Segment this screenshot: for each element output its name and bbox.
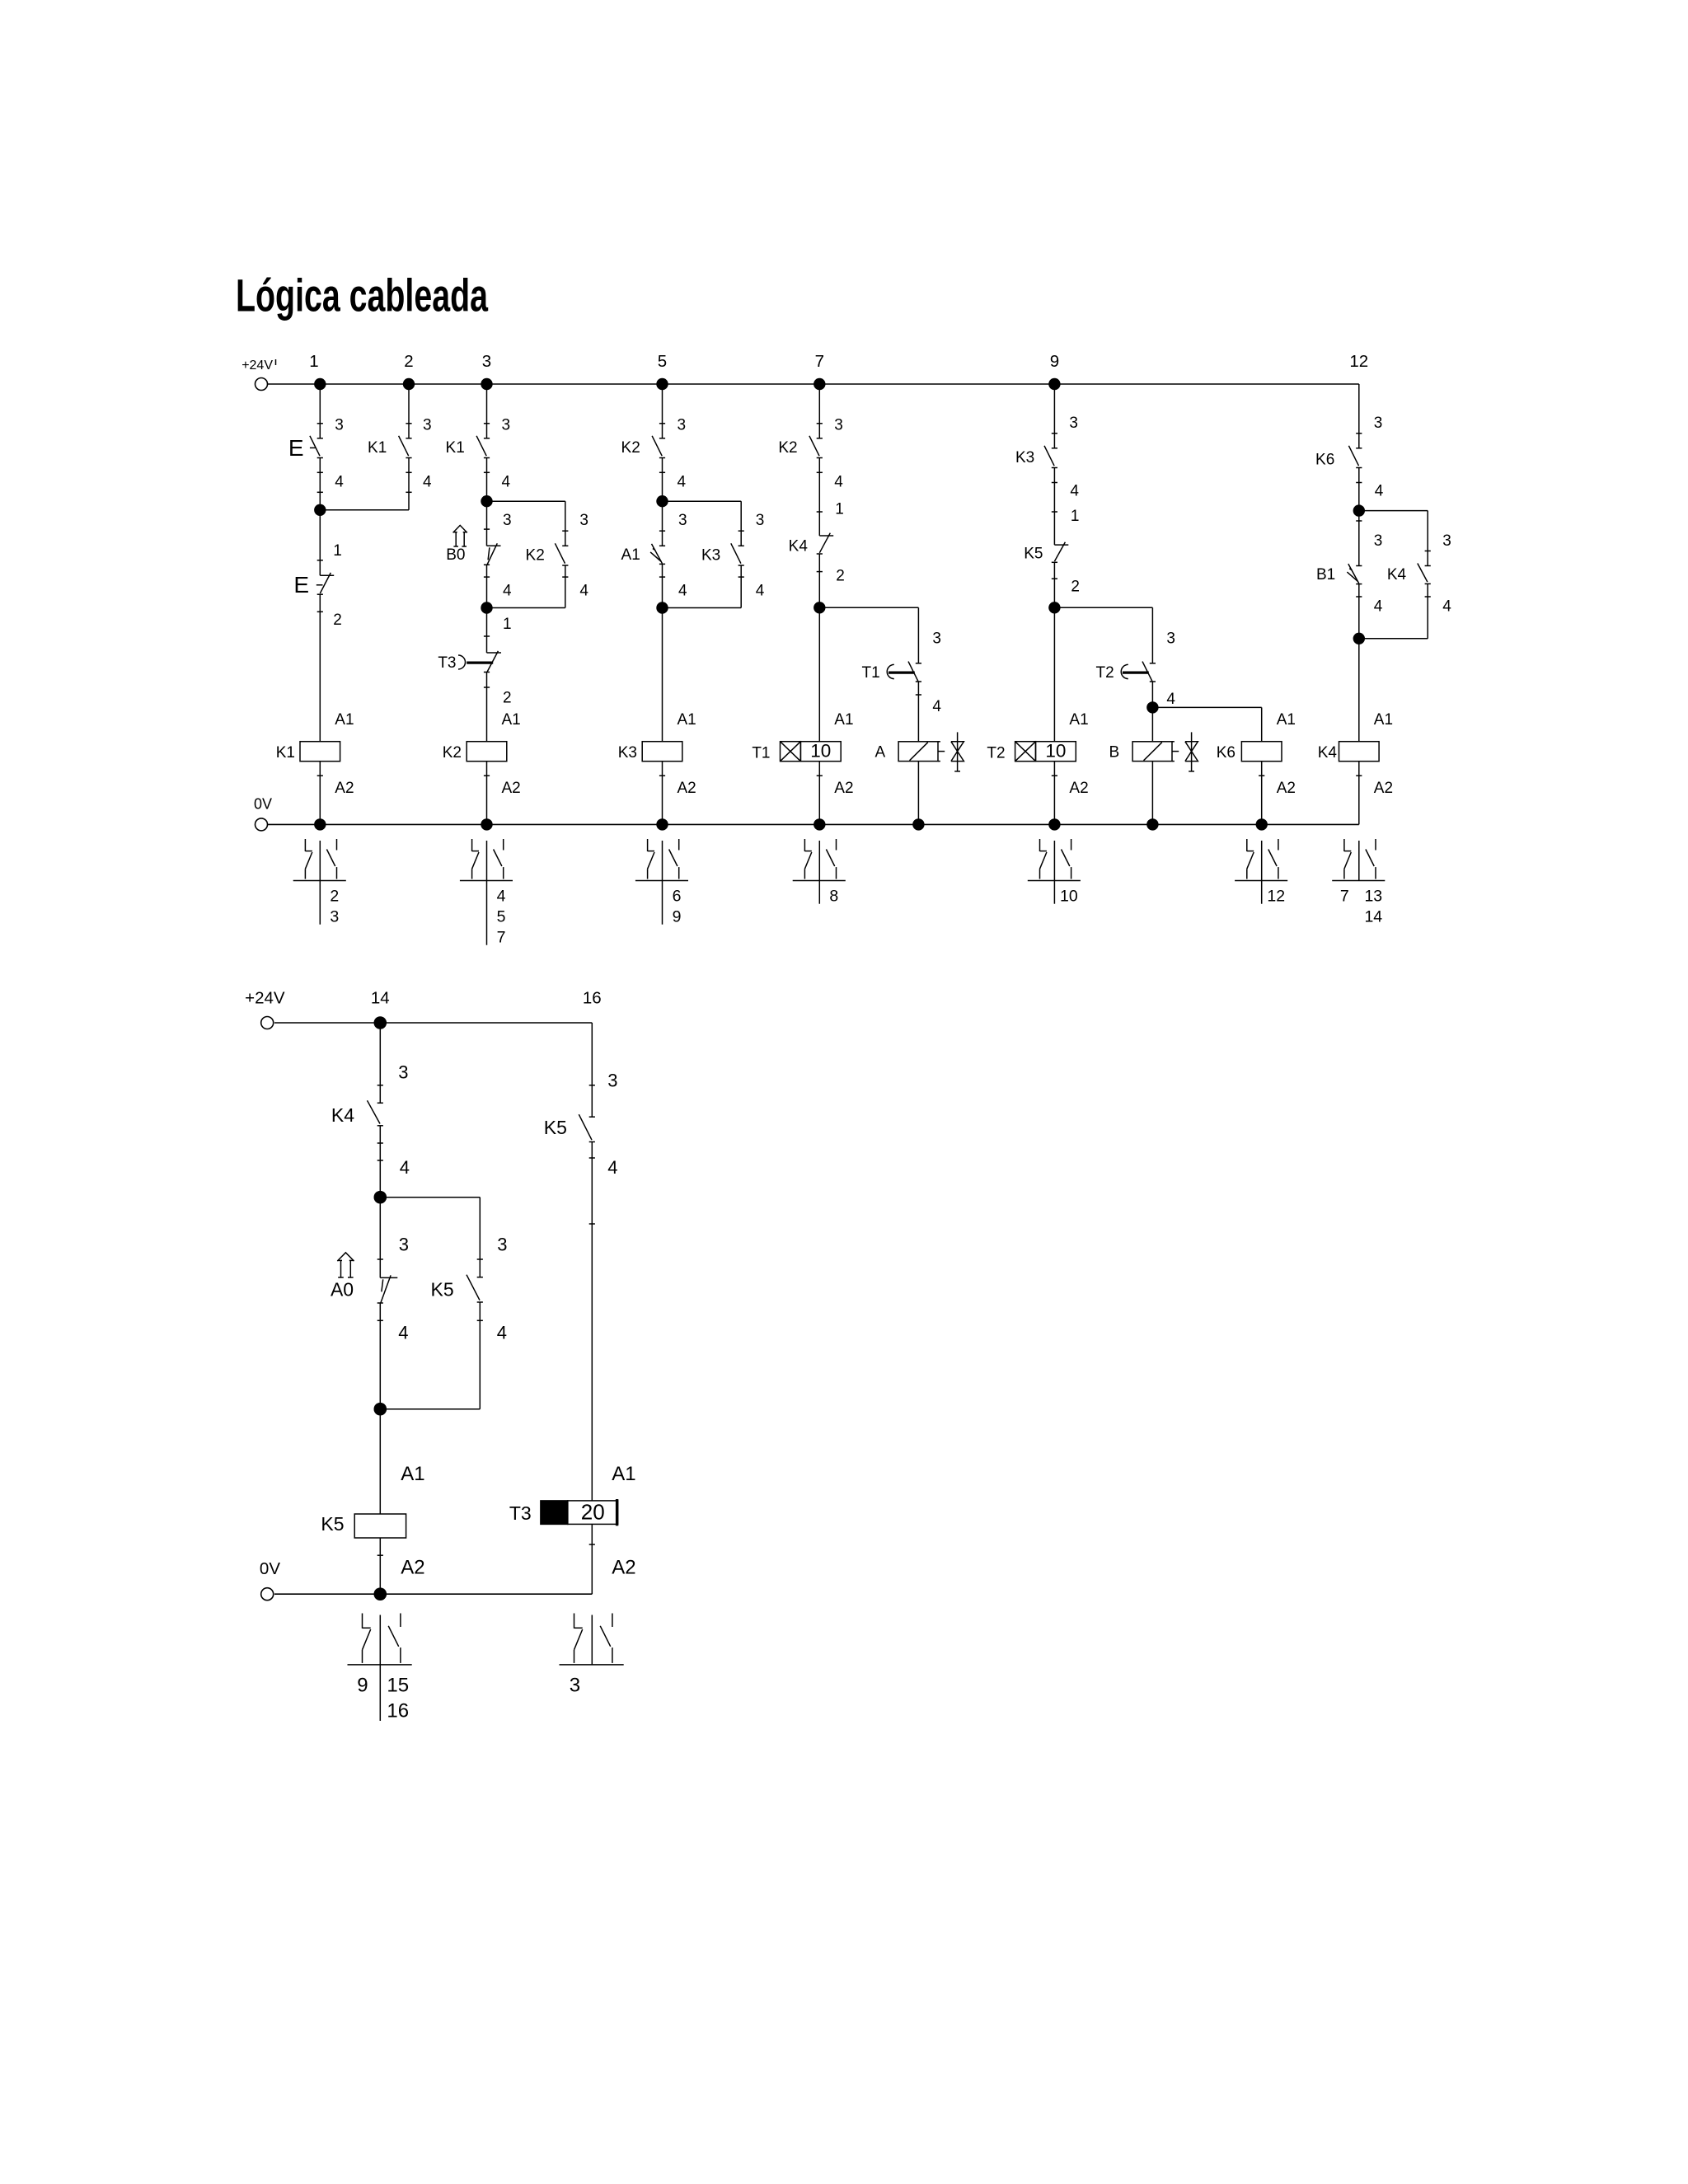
wire rung 7 node to coil T1 (818, 607, 820, 741)
+24V rail (bottom section) (274, 1022, 592, 1024)
svg-text:4: 4 (756, 582, 765, 599)
svg-text:3: 3 (482, 352, 491, 371)
svg-text:A1: A1 (834, 711, 853, 729)
svg-text:T2: T2 (1096, 664, 1114, 682)
svg-text:15: 15 (387, 1675, 409, 1697)
svg-text:1: 1 (309, 352, 318, 371)
junction on +24V rail, rung 5 (656, 378, 668, 390)
svg-text:4: 4 (579, 582, 588, 599)
svg-text:3: 3 (399, 1235, 409, 1255)
svg-text:3: 3 (398, 1062, 408, 1083)
svg-text:9: 9 (673, 908, 682, 926)
svg-text:A2: A2 (1277, 780, 1296, 797)
node rung 5 parallel branch top (656, 495, 668, 507)
limit switch B1 NO (rung 12) (1358, 511, 1360, 566)
svg-text:1: 1 (835, 501, 844, 518)
svg-text:3: 3 (1069, 415, 1078, 432)
svg-text:E: E (288, 435, 304, 461)
wire coil T2 to 0V rail (1053, 762, 1055, 825)
svg-text:5: 5 (497, 908, 506, 926)
node rung 7 branch to T1 contact (814, 602, 825, 613)
wire node to E NC contact (319, 510, 321, 575)
contact K5 NO (rung 14, seal branch) (477, 1277, 483, 1278)
svg-text:3: 3 (834, 417, 843, 434)
svg-text:4: 4 (678, 474, 687, 491)
junction on +24V rail, rung 3 (481, 378, 492, 390)
junction on 0V rail, coil K6 (1256, 818, 1268, 830)
node rung 3 parallel branch bottom (481, 602, 492, 613)
svg-text:16: 16 (583, 989, 602, 1008)
wire valve A to 0V rail (917, 762, 919, 825)
svg-text:12: 12 (1267, 888, 1285, 906)
wire branch bottom rung 12 (1358, 583, 1360, 638)
svg-text:20: 20 (581, 1500, 605, 1525)
relay coil K2 (467, 742, 507, 762)
wire T1 contact to valve A (917, 681, 919, 742)
pushbutton E NC contact (rung 1) (320, 574, 334, 576)
contact K4 NC (rung 7) (819, 535, 833, 537)
contact K2 NO (rung 3, seal branch) (562, 545, 568, 546)
svg-text:0V: 0V (254, 796, 272, 813)
svg-text:K5: K5 (1024, 546, 1043, 563)
svg-text:4: 4 (1070, 483, 1079, 500)
timer contact T1 NO delayed (valve A branch) (916, 663, 921, 664)
node rung 12 parallel branch top (1353, 504, 1365, 516)
svg-text:K4: K4 (1318, 744, 1338, 762)
contact table of relay K5 (379, 1615, 381, 1722)
junction on 0V rail, rung 1 (314, 818, 326, 830)
wire coil K5 to 0V rail (379, 1538, 381, 1594)
junction on +24V rail, rung 1 (314, 378, 326, 390)
svg-text:4: 4 (678, 582, 687, 599)
svg-text:A2: A2 (678, 780, 696, 797)
pushbutton E NO contact (rung 1) (317, 438, 323, 439)
wire valve B to 0V rail (1151, 762, 1153, 825)
wire rung 9 from +24V rail (1053, 384, 1055, 448)
svg-text:7: 7 (497, 929, 506, 947)
svg-text:16: 16 (387, 1700, 409, 1722)
svg-text:A2: A2 (1374, 780, 1393, 797)
svg-text:K3: K3 (1015, 449, 1034, 466)
contact K5 NC (rung 9) (1054, 544, 1068, 546)
wire contact K6 to node (1358, 468, 1360, 511)
svg-text:13: 13 (1364, 888, 1382, 906)
contact K5 NO (rung 16) (589, 1116, 595, 1118)
contact table of relay K4 (1358, 841, 1360, 881)
node rung 9 branch to T2 contact (1048, 602, 1060, 613)
junction on +24V rail, rung 9 (1048, 378, 1060, 390)
wire node to T3 contact (486, 608, 488, 654)
timer coil T2 with preset 10 (1015, 742, 1036, 762)
relay coil K4 (1339, 742, 1380, 762)
svg-text:3: 3 (678, 512, 687, 529)
svg-text:1: 1 (333, 542, 342, 560)
svg-text:7: 7 (815, 352, 824, 371)
svg-text:A1: A1 (621, 546, 640, 564)
junction on 0V rail, valve B (1146, 818, 1158, 830)
svg-text:A2: A2 (502, 780, 521, 797)
contact K6 NO (rung 12) (1356, 448, 1362, 449)
limit switch A1 NO (rung 5) (662, 501, 663, 546)
svg-text:4: 4 (834, 474, 843, 491)
svg-text:4: 4 (398, 1322, 408, 1343)
wire branch bottom rung 3 (486, 565, 488, 607)
svg-text:3: 3 (1442, 532, 1451, 550)
wire rung 1 contact to node (319, 458, 321, 510)
svg-text:E: E (293, 572, 309, 598)
svg-text:4: 4 (1442, 598, 1451, 616)
svg-text:K2: K2 (778, 439, 797, 457)
wire branch to T1 contact (819, 607, 918, 608)
wire contact K2 to contact K4 (818, 458, 820, 537)
wire coil K4 to 0V rail (1358, 762, 1360, 825)
wire rung 14 from +24V rail (379, 1023, 381, 1103)
svg-text:K5: K5 (321, 1513, 344, 1535)
svg-text:4: 4 (932, 698, 941, 715)
svg-text:2: 2 (330, 888, 339, 906)
svg-text:3: 3 (335, 417, 344, 434)
svg-text:B0: B0 (446, 546, 465, 564)
svg-text:4: 4 (1374, 598, 1383, 616)
wire branch top rung 12 (1359, 510, 1428, 512)
0V rail (top section) (268, 823, 1359, 825)
wire rung 2 branch join (320, 509, 409, 511)
wire branch top rung 3 (487, 500, 565, 502)
wire rung 7 from +24V rail (818, 384, 820, 438)
svg-text:10: 10 (1045, 741, 1066, 762)
node rung 3 parallel branch top (481, 495, 492, 507)
svg-text:K1: K1 (276, 744, 295, 762)
wire contact K5 to coil T3 (591, 1142, 593, 1501)
svg-text:7: 7 (1340, 888, 1349, 906)
svg-text:T3: T3 (438, 654, 456, 672)
svg-text:K2: K2 (443, 744, 462, 762)
0V rail (bottom section) (274, 1593, 592, 1595)
contact table of relay K1 (319, 841, 321, 925)
wire rung 9 node to coil T2 (1053, 607, 1055, 741)
svg-text:K2: K2 (526, 546, 545, 564)
wire contact K3 to contact K5 (1053, 468, 1055, 546)
svg-text:4: 4 (607, 1157, 617, 1178)
+24V rail terminal (top) (256, 378, 268, 391)
svg-text:10: 10 (810, 741, 831, 762)
svg-text:3: 3 (423, 417, 432, 434)
svg-text:K5: K5 (431, 1279, 454, 1301)
wire rung 16 from +24V rail corner (591, 1023, 593, 1117)
wire contact K4 to node (818, 554, 820, 607)
svg-text:4: 4 (503, 582, 512, 599)
wire coil K3 to 0V rail (662, 762, 663, 825)
junction on 0V rail, rung 14 (374, 1587, 387, 1601)
wire rung 5 from +24V rail (662, 384, 663, 438)
node rung 14 parallel branch bottom (374, 1403, 387, 1416)
contact K4 NO (rung 14) (377, 1102, 383, 1104)
svg-text:T3: T3 (509, 1502, 532, 1524)
actuation arrow of B0 (455, 532, 457, 546)
svg-text:2: 2 (503, 689, 512, 706)
junction on 0V rail, rung 3 (481, 818, 492, 830)
svg-text:A2: A2 (1069, 780, 1088, 797)
svg-text:3: 3 (503, 512, 512, 529)
timer contact T2 NO delayed (valve B branch) (1150, 663, 1156, 664)
svg-text:14: 14 (371, 989, 390, 1008)
svg-text:K2: K2 (621, 439, 640, 457)
wire coil T1 to 0V rail (818, 762, 820, 825)
node rung 5 parallel branch bottom (656, 602, 668, 613)
svg-text:3: 3 (330, 908, 339, 926)
svg-text:A1: A1 (335, 711, 354, 729)
wire rung 5 contact K2 to node (662, 458, 663, 502)
svg-text:12: 12 (1349, 352, 1368, 371)
wire branch to coil K6 (1152, 706, 1261, 708)
wire node to valve B (1151, 707, 1153, 741)
svg-text:A2: A2 (612, 1557, 635, 1579)
svg-text:A1: A1 (678, 711, 696, 729)
wire rung 2 from +24V rail (408, 384, 410, 438)
junction on +24V rail, rung 2 (403, 378, 415, 390)
junction on 0V rail, valve A (912, 818, 924, 830)
svg-text:3: 3 (932, 630, 941, 648)
svg-text:4: 4 (423, 474, 432, 491)
svg-text:T1: T1 (862, 664, 880, 682)
svg-text:1: 1 (503, 616, 512, 633)
valve solenoid B (1132, 742, 1172, 762)
svg-text:2: 2 (404, 352, 413, 371)
wire rung 1 from +24V rail (319, 384, 321, 438)
svg-text:4: 4 (400, 1157, 410, 1178)
svg-text:3: 3 (607, 1070, 617, 1090)
relay coil K1 (300, 742, 340, 762)
wire contact K5 to node (1053, 562, 1055, 607)
node valve B / coil K6 branch (1146, 701, 1158, 713)
svg-text:0V: 0V (260, 1559, 280, 1578)
0V rail terminal (top) (256, 818, 268, 831)
wire coil K6 to 0V rail (1261, 762, 1263, 825)
svg-text:3: 3 (497, 1235, 507, 1255)
contact K2 NO (rung 5) (659, 438, 665, 439)
svg-text:A1: A1 (401, 1463, 424, 1485)
wire branch top rung 5 (663, 500, 742, 502)
svg-text:3: 3 (678, 417, 687, 434)
contact table of timer T1 (818, 841, 820, 904)
contact K4 NO (rung 12, branch) (1425, 565, 1431, 567)
node rung 12 parallel branch bottom (1353, 633, 1365, 644)
svg-text:+24V: +24V (241, 359, 273, 373)
svg-text:4: 4 (497, 1322, 507, 1343)
junction on 0V rail, rung 5 (656, 818, 668, 830)
timer contact T3 NC delayed (rung 3) (487, 652, 502, 654)
svg-text:A2: A2 (335, 780, 354, 797)
svg-text:9: 9 (357, 1675, 368, 1697)
svg-text:3: 3 (1166, 630, 1175, 648)
wire coil K1 to 0V rail (319, 762, 321, 825)
wire node to coil K4 (1358, 639, 1360, 742)
svg-text:A2: A2 (401, 1557, 424, 1579)
wire branch bottom rung 5 (662, 564, 663, 607)
contact table of relay K3 (662, 841, 663, 925)
timer coil T3 with preset 20 (541, 1501, 568, 1525)
contact table of relay K6 (1261, 841, 1263, 904)
svg-text:A1: A1 (1374, 711, 1393, 729)
contact K3 NO (rung 5, seal branch) (738, 545, 744, 546)
junction on +24V rail, rung 7 (814, 378, 825, 390)
svg-text:9: 9 (1050, 352, 1059, 371)
svg-text:K3: K3 (618, 744, 637, 762)
wire rung 3 from +24V rail (486, 384, 488, 438)
contact table of timer T3 (591, 1615, 593, 1665)
svg-text:8: 8 (829, 888, 838, 906)
svg-text:B: B (1109, 743, 1120, 761)
svg-text:4: 4 (1166, 691, 1175, 708)
svg-text:T1: T1 (752, 745, 770, 762)
wire T2 contact to valve-B node (1151, 681, 1153, 707)
svg-text:1: 1 (1071, 508, 1080, 525)
contact table of timer T2 (1053, 841, 1055, 904)
svg-text:3: 3 (756, 512, 765, 529)
wire E NC to coil K1 (319, 594, 321, 742)
+24V rail (top section) (268, 383, 1359, 385)
svg-text:3: 3 (570, 1675, 580, 1697)
svg-text:4: 4 (1375, 483, 1384, 500)
wire branch bottom rung 14 (379, 1303, 381, 1409)
svg-text:4: 4 (335, 474, 344, 491)
wire coil K2 to 0V rail (486, 762, 488, 825)
svg-text:+24V: +24V (245, 989, 285, 1008)
svg-text:A2: A2 (834, 780, 853, 797)
wire T3 contact to coil K2 (486, 673, 488, 742)
svg-text:6: 6 (673, 888, 682, 906)
wire coil T3 to 0V rail (591, 1524, 593, 1594)
svg-text:Lógica cableada: Lógica cableada (236, 269, 489, 321)
svg-text:K1: K1 (446, 439, 465, 457)
relay coil K6 (1241, 742, 1282, 762)
svg-text:10: 10 (1060, 888, 1078, 906)
svg-text:4: 4 (502, 474, 511, 491)
actuation arrow of A0 (340, 1260, 342, 1277)
svg-text:T2: T2 (987, 745, 1005, 762)
svg-text:A1: A1 (1069, 711, 1088, 729)
junction on 0V rail, rung 7 (814, 818, 825, 830)
svg-text:A1: A1 (502, 711, 521, 729)
svg-text:5: 5 (658, 352, 667, 371)
svg-text:B1: B1 (1316, 566, 1335, 583)
node rung 14 parallel branch top (374, 1191, 387, 1204)
0V rail terminal (bottom) (261, 1588, 274, 1601)
svg-text:A1: A1 (612, 1463, 635, 1485)
wire rung 12 from +24V rail corner (1358, 384, 1360, 448)
svg-text:K6: K6 (1217, 744, 1236, 762)
svg-text:K3: K3 (701, 546, 720, 564)
junction on 0V rail, rung 9 (1048, 818, 1060, 830)
wire node to coil K5 (379, 1409, 381, 1514)
svg-text:K4: K4 (331, 1104, 354, 1126)
wire branch to T2 contact (1054, 607, 1152, 608)
wire branch top rung 14 (380, 1197, 480, 1198)
relay coil K5 (354, 1514, 406, 1538)
svg-text:K4: K4 (789, 537, 809, 555)
svg-text:14: 14 (1364, 908, 1382, 926)
valve solenoid A (898, 742, 938, 762)
svg-text:2: 2 (836, 568, 845, 585)
svg-text:K5: K5 (544, 1117, 567, 1138)
junction on +24V rail, rung 14 (374, 1016, 387, 1029)
svg-text:3: 3 (502, 417, 511, 434)
contact K1 NO (rung 3) (484, 438, 490, 439)
svg-text:3: 3 (579, 512, 588, 529)
node rung1/rung2 join (314, 504, 326, 516)
svg-text:K1: K1 (368, 439, 387, 457)
contact K1 NO (rung 2) (406, 438, 411, 439)
+24V rail terminal (bottom) (261, 1017, 274, 1029)
contact K3 NO (rung 9) (1052, 448, 1057, 449)
svg-text:3: 3 (1374, 532, 1383, 550)
svg-text:A1: A1 (1277, 711, 1296, 729)
svg-text:2: 2 (1071, 579, 1080, 596)
wire contact K4 to node (379, 1126, 381, 1197)
svg-text:A: A (875, 743, 886, 761)
wire node to coil K3 (662, 608, 663, 742)
relay coil K3 (642, 742, 682, 762)
timer coil T1 with preset 10 (781, 742, 801, 762)
svg-text:K6: K6 (1315, 451, 1334, 468)
contact table of relay K2 (486, 841, 488, 945)
contact K2 NO (rung 7) (817, 438, 823, 439)
limit switch B0 NC (rung 3) (486, 501, 488, 546)
svg-text:K4: K4 (1387, 566, 1407, 583)
wire rung 3 contact K1 to node (486, 458, 488, 502)
wire rung 2 to join node (408, 458, 410, 510)
limit switch A0 NC (rung 14) (379, 1197, 381, 1278)
svg-text:4: 4 (497, 888, 506, 906)
svg-text:A0: A0 (331, 1279, 354, 1301)
svg-text:2: 2 (333, 612, 342, 629)
svg-text:3: 3 (1374, 415, 1383, 432)
